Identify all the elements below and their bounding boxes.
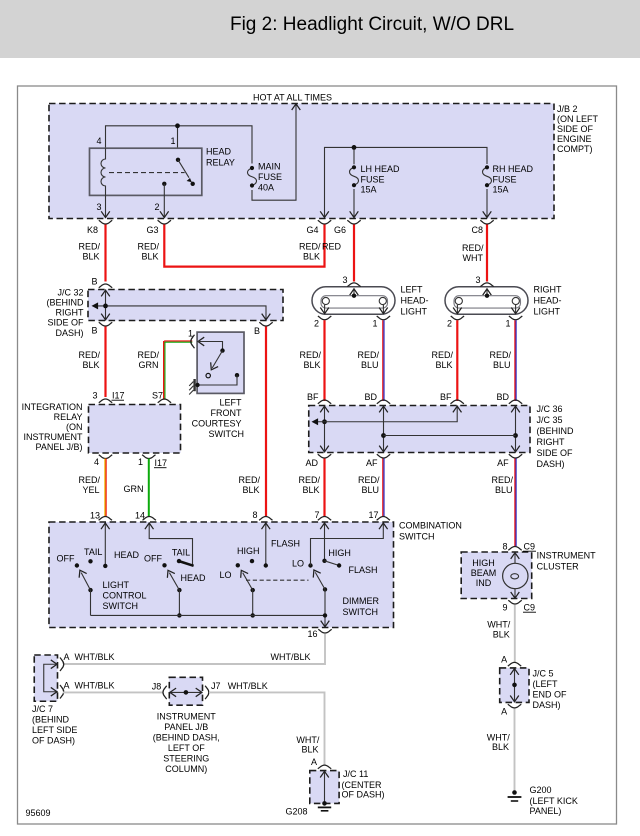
svg-text:BLK: BLK xyxy=(141,252,158,262)
svg-text:WHT/: WHT/ xyxy=(487,620,510,630)
svg-text:AF: AF xyxy=(497,458,509,468)
svg-text:WHT: WHT xyxy=(463,253,484,263)
svg-text:DASH): DASH) xyxy=(55,328,83,338)
svg-text:15A: 15A xyxy=(493,185,509,195)
svg-text:GRN: GRN xyxy=(139,360,159,370)
svg-text:16: 16 xyxy=(307,629,317,639)
svg-text:HIGH: HIGH xyxy=(237,546,260,556)
svg-text:3: 3 xyxy=(342,275,347,285)
svg-text:FUSE: FUSE xyxy=(361,174,385,184)
junction block INSTRUMENT PANEL J/B xyxy=(169,677,202,705)
svg-text:SWITCH: SWITCH xyxy=(209,429,245,439)
svg-text:BLK: BLK xyxy=(493,630,510,640)
svg-text:WHT/BLK: WHT/BLK xyxy=(270,652,310,662)
wire J/C35 internal vertical BF-AD xyxy=(320,406,329,453)
label DIMMER SWITCH xyxy=(343,596,380,617)
svg-text:15A: 15A xyxy=(361,185,377,195)
svg-text:RED/: RED/ xyxy=(358,475,380,485)
connector J8 xyxy=(152,682,167,700)
svg-text:WHT/: WHT/ xyxy=(487,733,510,743)
connector pin 13 xyxy=(90,511,112,521)
switch light control stage 2 xyxy=(144,548,206,618)
svg-text:BLK: BLK xyxy=(303,360,320,370)
svg-text:C9: C9 xyxy=(524,603,536,613)
lamp LEFT HEADLIGHT xyxy=(312,275,395,329)
linkage dashed xyxy=(246,579,309,581)
junction block J/C 11 xyxy=(310,771,339,804)
junction block J/C 7 xyxy=(34,655,57,701)
svg-text:AD: AD xyxy=(305,458,318,468)
svg-text:WHT/: WHT/ xyxy=(296,735,319,745)
connector BF right xyxy=(440,392,464,404)
svg-text:TAIL: TAIL xyxy=(84,547,102,557)
svg-text:BD: BD xyxy=(496,392,509,402)
svg-text:BLK: BLK xyxy=(242,485,259,495)
wire relay pin 1 branch xyxy=(177,126,179,160)
label HIGH BEAM IND xyxy=(471,558,497,588)
svg-text:(BEHIND: (BEHIND xyxy=(32,715,70,725)
label J/C 11 location xyxy=(342,769,385,800)
wire left headlight pin1 to BD RED/BLU xyxy=(357,320,384,401)
svg-text:RED/: RED/ xyxy=(137,242,159,252)
svg-text:DASH): DASH) xyxy=(533,700,561,710)
connector G3 xyxy=(146,211,171,235)
svg-text:3: 3 xyxy=(475,275,480,285)
svg-text:C8: C8 xyxy=(471,225,483,235)
label J/C 32 location xyxy=(46,288,84,339)
svg-text:BF: BF xyxy=(440,392,452,402)
svg-text:3: 3 xyxy=(92,391,97,401)
connector A2 J/C7 xyxy=(60,685,64,698)
label COMBINATION SWITCH xyxy=(399,521,462,542)
connector pin 9 C9 xyxy=(502,600,536,612)
svg-text:OFF: OFF xyxy=(144,554,162,564)
wire J/C32 internal horizontal xyxy=(92,302,271,320)
svg-text:A: A xyxy=(311,757,317,767)
svg-text:HOT AT ALL TIMES: HOT AT ALL TIMES xyxy=(253,93,332,103)
wire J7 to J/C11 WHT/BLK xyxy=(209,681,325,765)
svg-text:40A: 40A xyxy=(258,183,274,193)
svg-text:2: 2 xyxy=(447,319,452,329)
wire pin 4 to switch pin 13 RED/YEL xyxy=(78,459,106,517)
svg-text:G208: G208 xyxy=(285,807,307,817)
switch LEFT FRONT COURTESY SWITCH xyxy=(188,329,244,395)
svg-text:RED/: RED/ xyxy=(137,350,159,360)
ground G200 xyxy=(508,790,522,801)
connector B bottom left xyxy=(91,322,112,335)
svg-text:LEFT SIDE: LEFT SIDE xyxy=(32,725,77,735)
svg-text:J/C 7: J/C 7 xyxy=(32,704,53,714)
svg-text:TAIL: TAIL xyxy=(172,548,190,558)
svg-text:S7: S7 xyxy=(152,391,163,401)
wire ground bus to pin 16 xyxy=(91,613,330,627)
svg-text:J/C 32: J/C 32 xyxy=(57,288,83,298)
svg-text:BF: BF xyxy=(307,392,319,402)
svg-text:G200: G200 xyxy=(530,785,552,795)
lamp HIGH BEAM IND / INSTRUMENT CLUSTER xyxy=(461,552,532,599)
svg-text:PANEL): PANEL) xyxy=(530,806,562,816)
connector pin 1 I17 xyxy=(138,455,167,468)
junction block J/C 36 J/C 35 xyxy=(309,406,530,453)
svg-text:RED/: RED/ xyxy=(299,350,321,360)
wire pin 16 to J/C7 WHT/BLK xyxy=(63,634,325,664)
svg-text:RELAY: RELAY xyxy=(54,412,83,422)
svg-text:HIGH: HIGH xyxy=(472,558,495,568)
svg-text:J8: J8 xyxy=(152,682,162,692)
svg-text:RIGHT: RIGHT xyxy=(534,285,563,295)
wire B to integration relay RED/BLK xyxy=(78,327,105,398)
svg-text:(ON: (ON xyxy=(66,422,83,432)
svg-text:STEERING: STEERING xyxy=(163,754,209,764)
switch light control stage 1 xyxy=(57,547,140,615)
svg-text:IND: IND xyxy=(476,578,492,588)
svg-text:WHT/BLK: WHT/BLK xyxy=(75,652,115,662)
svg-text:OFF: OFF xyxy=(57,554,75,564)
connector A J/C11 xyxy=(311,757,331,769)
svg-text:3: 3 xyxy=(96,202,101,212)
svg-text:FUSE: FUSE xyxy=(258,172,282,182)
svg-text:1: 1 xyxy=(138,457,143,467)
svg-text:RED/: RED/ xyxy=(462,243,484,253)
svg-text:BLU: BLU xyxy=(493,360,511,370)
svg-text:7: 7 xyxy=(314,510,319,520)
svg-text:HIGH: HIGH xyxy=(328,548,351,558)
wire J/C7 to instrument panel J/B WHT/BLK xyxy=(63,681,163,693)
svg-text:1: 1 xyxy=(372,319,377,329)
wire AF to dimmer pin 17 RED/BLU xyxy=(358,459,384,517)
svg-text:ENGINE: ENGINE xyxy=(557,134,592,144)
wire G6 RED xyxy=(322,225,354,282)
wire cluster to J/C5 WHT/BLK xyxy=(487,605,515,663)
wire dimmer pin 17 path xyxy=(311,523,388,566)
fuse LH HEAD FUSE 15A xyxy=(350,164,401,217)
svg-text:BEAM: BEAM xyxy=(471,568,497,578)
svg-text:K8: K8 xyxy=(87,225,98,235)
svg-text:(BEHIND DASH,: (BEHIND DASH, xyxy=(153,733,220,743)
svg-text:SIDE OF: SIDE OF xyxy=(537,448,574,458)
switch dimmer stage 1 xyxy=(219,539,300,618)
svg-text:Fig 2: Headlight Circuit, W/O: Fig 2: Headlight Circuit, W/O DRL xyxy=(230,14,514,35)
svg-text:INSTRUMENT: INSTRUMENT xyxy=(24,432,83,442)
ground G208 xyxy=(285,801,331,816)
svg-text:BD: BD xyxy=(364,392,377,402)
svg-text:SIDE OF: SIDE OF xyxy=(557,124,594,134)
connector pin 8 xyxy=(252,510,272,520)
wire hot feed to relay and main fuse xyxy=(106,126,253,164)
wire G3 to G4 RED/BLK xyxy=(137,225,324,267)
connector B bottom right xyxy=(254,322,273,336)
junction block J/C 5 xyxy=(500,668,529,703)
svg-text:HEAD: HEAD xyxy=(206,147,232,157)
svg-text:C9: C9 xyxy=(524,542,536,552)
connector J7 xyxy=(205,681,220,699)
svg-text:FLASH: FLASH xyxy=(348,565,377,575)
connector BF left xyxy=(307,392,331,404)
svg-text:9: 9 xyxy=(502,603,507,613)
connector AD xyxy=(305,454,331,468)
svg-text:A: A xyxy=(501,655,507,665)
connector A1 J/C7 xyxy=(60,658,64,671)
svg-text:DIMMER: DIMMER xyxy=(343,596,380,606)
svg-text:RED/: RED/ xyxy=(431,350,453,360)
svg-text:1: 1 xyxy=(170,136,175,146)
svg-text:I17: I17 xyxy=(155,458,168,468)
wire left headlight pin2 to BF RED/BLK xyxy=(299,320,324,401)
svg-text:95609: 95609 xyxy=(26,808,51,818)
connector A top xyxy=(501,655,521,667)
svg-text:LIGHT: LIGHT xyxy=(103,580,130,590)
svg-text:17: 17 xyxy=(368,510,378,520)
svg-text:RED/: RED/ xyxy=(78,242,100,252)
svg-text:RED/: RED/ xyxy=(489,350,511,360)
connector pin 14 xyxy=(135,511,156,521)
label J/C 36 J/C 35 location xyxy=(537,404,575,469)
svg-text:COMPT): COMPT) xyxy=(557,144,593,154)
wire J/C5 internal xyxy=(510,668,519,703)
svg-text:(LEFT: (LEFT xyxy=(533,679,559,689)
svg-text:1: 1 xyxy=(505,319,510,329)
connector BD left xyxy=(364,392,390,404)
svg-text:(BEHIND: (BEHIND xyxy=(46,298,84,308)
connector AF right xyxy=(497,454,522,468)
svg-text:8: 8 xyxy=(252,510,257,520)
svg-text:LEFT: LEFT xyxy=(219,398,242,408)
label LEFT HEADLIGHT xyxy=(401,285,429,317)
svg-text:RIGHT: RIGHT xyxy=(537,437,566,447)
junction block J/C 32 xyxy=(88,290,283,321)
wire J/C32 internal vertical xyxy=(101,290,110,321)
svg-text:J/C 11: J/C 11 xyxy=(343,769,368,779)
svg-text:HEAD-: HEAD- xyxy=(401,296,429,306)
svg-text:INSTRUMENT: INSTRUMENT xyxy=(157,712,216,722)
connector BD right xyxy=(496,392,522,404)
svg-text:I17: I17 xyxy=(112,391,125,401)
label A top J/C7 xyxy=(64,652,70,662)
svg-text:OF DASH): OF DASH) xyxy=(32,736,75,746)
label INTEGRATION RELAY location xyxy=(22,402,83,452)
connector pin 3 I17 xyxy=(92,391,124,403)
connector AF xyxy=(366,454,390,468)
junction block J/B 2 xyxy=(49,104,554,219)
svg-text:RIGHT: RIGHT xyxy=(56,308,85,318)
wire B to dimmer switch pin 8 RED/BLK xyxy=(238,327,266,517)
svg-text:FLASH: FLASH xyxy=(271,539,300,549)
svg-text:RED/: RED/ xyxy=(357,350,379,360)
svg-text:MAIN: MAIN xyxy=(258,162,281,172)
label J/B 2 location xyxy=(557,104,599,154)
wire main fuse to HOT riser xyxy=(252,104,300,200)
svg-text:B: B xyxy=(91,326,97,336)
svg-text:BLK: BLK xyxy=(301,745,318,755)
svg-text:BLK: BLK xyxy=(302,485,319,495)
svg-text:OF DASH): OF DASH) xyxy=(342,790,385,800)
connector A bottom xyxy=(501,704,521,716)
svg-text:J/C 35: J/C 35 xyxy=(537,415,563,425)
svg-text:COMBINATION: COMBINATION xyxy=(399,521,462,531)
svg-text:LH HEAD: LH HEAD xyxy=(361,164,401,174)
svg-text:B: B xyxy=(91,277,97,287)
svg-text:LO: LO xyxy=(292,559,304,569)
svg-text:SWITCH: SWITCH xyxy=(399,532,435,542)
connector C8 xyxy=(471,211,493,235)
svg-text:HEAD: HEAD xyxy=(180,573,206,583)
svg-text:LIGHT: LIGHT xyxy=(401,307,428,317)
svg-text:BLK: BLK xyxy=(492,742,509,752)
svg-text:RED/: RED/ xyxy=(78,350,100,360)
wire courtesy switch to S7 RED/GRN xyxy=(137,341,192,400)
svg-text:CONTROL: CONTROL xyxy=(103,591,147,601)
svg-text:2: 2 xyxy=(314,319,319,329)
label G200 xyxy=(530,785,578,816)
svg-text:SWITCH: SWITCH xyxy=(103,601,139,611)
svg-text:(LEFT KICK: (LEFT KICK xyxy=(530,796,578,806)
svg-text:RED: RED xyxy=(322,242,342,252)
connector B top xyxy=(91,277,112,288)
label J/C 5 location xyxy=(533,669,568,711)
wire pin 1 to switch pin 14 GRN xyxy=(124,459,149,517)
connector K8 xyxy=(87,211,112,235)
svg-text:WHT/BLK: WHT/BLK xyxy=(228,681,268,691)
svg-text:RED/: RED/ xyxy=(238,475,260,485)
connector pin S7 xyxy=(152,391,171,403)
relay INTEGRATION RELAY xyxy=(89,405,181,454)
wire headlight fuse feeder xyxy=(325,145,488,217)
svg-text:J/C 5: J/C 5 xyxy=(533,669,554,679)
label INSTRUMENT CLUSTER xyxy=(537,551,596,572)
svg-text:LIGHT: LIGHT xyxy=(534,307,561,317)
svg-text:HEAD-: HEAD- xyxy=(534,296,562,306)
svg-text:FRONT: FRONT xyxy=(211,408,242,418)
label LEFT FRONT COURTESY SWITCH xyxy=(192,398,244,440)
svg-text:PANEL J/B: PANEL J/B xyxy=(164,722,208,732)
connector G4 xyxy=(306,211,331,235)
svg-text:A: A xyxy=(64,681,70,691)
svg-text:INSTRUMENT: INSTRUMENT xyxy=(537,551,596,561)
label LIGHT CONTROL SWITCH xyxy=(103,580,147,611)
svg-text:(ON LEFT: (ON LEFT xyxy=(557,114,599,124)
svg-text:RED/: RED/ xyxy=(299,242,321,252)
switch COMBINATION SWITCH box xyxy=(49,522,394,628)
connector pin 8 C9 xyxy=(502,542,536,552)
wire K8 RED/BLK xyxy=(78,225,105,282)
svg-text:BLU: BLU xyxy=(495,485,513,495)
lamp RIGHT HEADLIGHT xyxy=(445,275,528,329)
svg-text:HEAD: HEAD xyxy=(114,550,140,560)
svg-text:2: 2 xyxy=(154,202,159,212)
wire right headlight pin2 to BF RED/BLK xyxy=(431,320,457,401)
svg-text:LO: LO xyxy=(219,570,231,580)
svg-text:BLU: BLU xyxy=(361,485,379,495)
svg-text:BLK: BLK xyxy=(303,252,320,262)
svg-text:FUSE: FUSE xyxy=(493,174,517,184)
svg-text:B: B xyxy=(254,326,260,336)
svg-text:RH HEAD: RH HEAD xyxy=(493,164,534,174)
svg-text:SWITCH: SWITCH xyxy=(343,607,379,617)
wire AF to instrument cluster RED/BLU xyxy=(491,459,516,547)
svg-text:PANEL J/B): PANEL J/B) xyxy=(35,442,82,452)
label J/C 7 location xyxy=(32,704,77,746)
svg-text:RELAY: RELAY xyxy=(206,158,235,168)
title bar xyxy=(0,0,640,58)
svg-text:GRN: GRN xyxy=(124,484,144,494)
svg-text:J/B 2: J/B 2 xyxy=(557,104,578,114)
connector G6 xyxy=(334,211,361,235)
connector pin 16 xyxy=(307,629,331,639)
svg-text:COLUMN): COLUMN) xyxy=(165,764,207,774)
svg-text:CLUSTER: CLUSTER xyxy=(537,562,580,572)
wire light control pin 13 stem xyxy=(101,523,110,569)
node HOT AT ALL TIMES xyxy=(253,93,332,103)
relay HEAD RELAY xyxy=(90,136,235,217)
svg-text:14: 14 xyxy=(135,511,145,521)
svg-text:INTEGRATION: INTEGRATION xyxy=(22,402,83,412)
svg-text:G6: G6 xyxy=(334,225,346,235)
svg-text:BLU: BLU xyxy=(361,360,379,370)
svg-text:SIDE OF: SIDE OF xyxy=(47,318,84,328)
svg-text:LEFT OF: LEFT OF xyxy=(168,743,205,753)
svg-text:AF: AF xyxy=(366,458,378,468)
wire J/C35 internal vertical BD-AF xyxy=(379,406,388,453)
svg-text:A: A xyxy=(501,707,507,717)
wire J/C5 to G200 WHT/BLK xyxy=(487,709,515,791)
wire dimmer pin 7 stem xyxy=(320,523,329,564)
svg-text:BLK: BLK xyxy=(82,252,99,262)
switch dimmer stage 2 xyxy=(292,548,378,615)
svg-text:G3: G3 xyxy=(146,225,158,235)
svg-text:J7: J7 xyxy=(211,681,221,691)
svg-text:END OF: END OF xyxy=(533,690,568,700)
wire dimmer pin 8 stem xyxy=(262,523,271,568)
wire J/C35 internal vertical BD-AF right xyxy=(384,406,520,453)
svg-text:RED/: RED/ xyxy=(491,475,513,485)
svg-text:(CENTER: (CENTER xyxy=(342,780,382,790)
svg-text:8: 8 xyxy=(502,542,507,552)
connector pin 7 xyxy=(314,510,331,520)
connector pin 17 xyxy=(368,510,390,520)
label RIGHT HEADLIGHT xyxy=(534,285,563,317)
svg-text:G4: G4 xyxy=(306,225,318,235)
connector pin 4 xyxy=(94,455,112,467)
bulb high beam indicator xyxy=(503,553,528,599)
junction xyxy=(175,123,180,128)
svg-text:4: 4 xyxy=(96,136,101,146)
svg-text:13: 13 xyxy=(90,511,100,521)
svg-text:4: 4 xyxy=(94,457,99,467)
svg-text:J/C 36: J/C 36 xyxy=(537,404,563,414)
svg-text:WHT/BLK: WHT/BLK xyxy=(75,681,115,691)
svg-text:LEFT: LEFT xyxy=(401,285,424,295)
svg-text:BLK: BLK xyxy=(435,360,452,370)
label INSTRUMENT PANEL J/B location xyxy=(153,712,220,775)
wire C8 RED/WHT xyxy=(462,225,487,282)
svg-text:BLK: BLK xyxy=(82,360,99,370)
fuse RH HEAD FUSE 15A xyxy=(483,164,534,217)
svg-text:DASH): DASH) xyxy=(537,459,565,469)
svg-text:RED/: RED/ xyxy=(78,475,100,485)
fuse MAIN FUSE 40A xyxy=(248,162,283,193)
svg-text:YEL: YEL xyxy=(82,485,99,495)
wire light control pin 14 path xyxy=(145,523,193,565)
wire right headlight pin1 to BD RED/BLU xyxy=(489,320,516,401)
wire J/C11 internal xyxy=(320,771,329,804)
wire J/C35 internal BF right branch xyxy=(312,406,462,426)
svg-text:(BEHIND: (BEHIND xyxy=(537,426,575,436)
svg-text:A: A xyxy=(64,652,70,662)
wire AD to dimmer pin 7 RED/BLK xyxy=(298,459,324,517)
svg-text:RED/: RED/ xyxy=(298,475,320,485)
svg-text:COURTESY: COURTESY xyxy=(192,419,242,429)
